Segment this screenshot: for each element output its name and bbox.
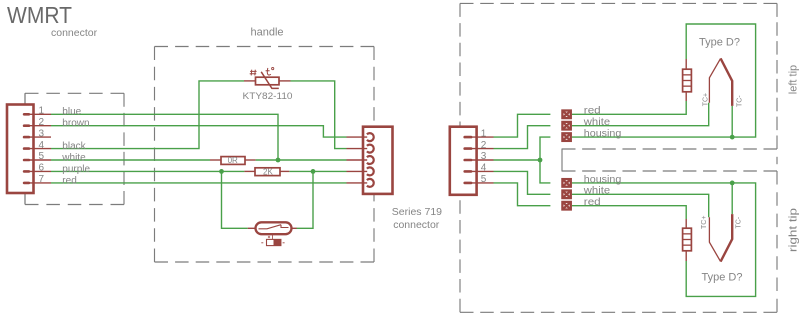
svg-text:handle: handle xyxy=(251,27,284,39)
svg-text:housing: housing xyxy=(584,174,622,185)
svg-text:red: red xyxy=(62,175,76,186)
svg-text:right tip: right tip xyxy=(787,208,799,252)
svg-text:2: 2 xyxy=(39,117,45,128)
svg-text:7: 7 xyxy=(39,174,45,185)
svg-text:connector: connector xyxy=(51,27,98,39)
svg-text:purple: purple xyxy=(62,164,90,175)
svg-text:TC+: TC+ xyxy=(701,216,708,229)
svg-text:white: white xyxy=(583,117,611,128)
svg-text:Type D?: Type D? xyxy=(702,272,743,284)
svg-text:5: 5 xyxy=(481,174,487,185)
svg-text:TC+: TC+ xyxy=(702,93,709,106)
svg-text:WMRT: WMRT xyxy=(7,2,72,28)
svg-text:brown: brown xyxy=(62,118,89,129)
svg-text:red: red xyxy=(584,106,601,117)
svg-text:white: white xyxy=(61,152,86,163)
svg-text:left tip: left tip xyxy=(787,65,799,94)
svg-text:4: 4 xyxy=(39,140,45,151)
svg-text:Type D?: Type D? xyxy=(699,36,740,48)
svg-text:red: red xyxy=(584,197,601,208)
svg-text:housing: housing xyxy=(584,129,622,140)
svg-text:TC-: TC- xyxy=(736,216,743,228)
svg-text:white: white xyxy=(583,186,611,197)
svg-text:1: 1 xyxy=(481,128,487,139)
svg-text:0R: 0R xyxy=(228,156,238,165)
svg-text:2: 2 xyxy=(481,140,487,151)
svg-text:blue: blue xyxy=(62,107,81,118)
svg-text:Series 719: Series 719 xyxy=(392,206,442,218)
svg-text:5: 5 xyxy=(39,151,45,162)
svg-text:KTY82-110: KTY82-110 xyxy=(243,91,293,101)
svg-text:3: 3 xyxy=(481,151,487,162)
svg-text:connector: connector xyxy=(393,219,440,231)
svg-text:6: 6 xyxy=(39,163,45,174)
svg-text:2K: 2K xyxy=(263,168,273,177)
svg-text:TC-: TC- xyxy=(736,95,743,107)
svg-text:4: 4 xyxy=(481,163,487,174)
svg-text:black: black xyxy=(62,141,86,152)
svg-text:3: 3 xyxy=(39,128,45,139)
svg-text:1: 1 xyxy=(39,106,45,117)
